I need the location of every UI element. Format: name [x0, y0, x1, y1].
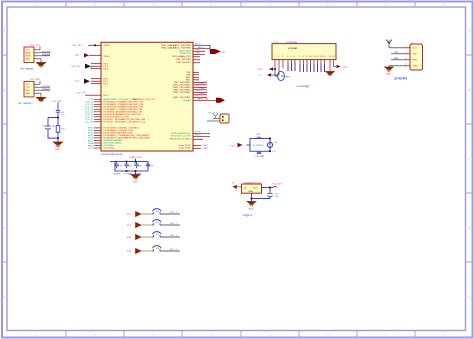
VCC arrow left of LCD — [258, 67, 276, 71]
GND arrow left of LCD — [259, 73, 280, 77]
svg-text:VCC_5V0: VCC_5V0 — [30, 79, 41, 81]
svg-text:CIK1_WdAVg_P80: CIK1_WdAVg_P80 — [172, 55, 191, 58]
svg-text:GND: GND — [133, 182, 138, 184]
wire reset bottom — [48, 133, 59, 143]
programming switch S1 right of MCU — [207, 112, 229, 123]
svg-text:ADC0: ADC0 — [195, 43, 202, 46]
node OSC_IN1 at XTAL2 pin — [72, 44, 96, 47]
off-sheet arrow right of MCU at UART pin — [216, 98, 225, 103]
MCU U1 right inside pin names — [161, 44, 191, 150]
svg-text:TXD: TXD — [413, 54, 418, 56]
svg-text:TIMC_C3OV/PA.1: TIMC_C3OV/PA.1 — [173, 91, 191, 94]
key row K1 — [127, 209, 180, 217]
svg-text:XTAL_OSC: XTAL_OSC — [130, 156, 142, 159]
svg-text:VCC: VCC — [25, 84, 30, 86]
capacitor C9 right leg — [146, 162, 154, 169]
svg-text:Rx3/Ad: Rx3/Ad — [183, 99, 191, 102]
svg-text:VCC: VCC — [343, 67, 348, 69]
resistor R1 in reset circuit — [53, 124, 66, 135]
MCU U1 left port P0 pins — [94, 99, 101, 148]
svg-text:TIMC_C3OV/PA.1: TIMC_C3OV/PA.1 — [173, 96, 191, 99]
off-sheet arrow right of MCU top — [210, 49, 225, 54]
svg-text:CAP1: CAP1 — [203, 144, 209, 147]
svg-text:GND: GND — [249, 209, 254, 211]
off-sheet arrow into P4.6-P4.4 — [71, 64, 91, 69]
svg-text:UART_TX0: UART_TX0 — [197, 98, 209, 101]
svg-text:VCC_3V3: VCC_3V3 — [272, 184, 283, 186]
net labels of P0 port pins — [85, 99, 94, 150]
ground under crystal circuit — [131, 171, 140, 184]
svg-text:30P: 30P — [118, 166, 122, 168]
LCD1602 module body — [272, 41, 336, 59]
svg-text:CIK1_WCLP86: CIK1_WCLP86 — [176, 59, 192, 61]
svg-text:P0.4/KxAIN7_TATN2/AIN7N/TIM0_C: P0.4/KxAIN7_TATN2/AIN7N/TIM0_C3B/C0B0N — [104, 137, 151, 140]
svg-text:RXD: RXD — [413, 60, 418, 62]
svg-text:RXD: RXD — [394, 58, 399, 60]
ground of reset circuit — [53, 142, 62, 151]
svg-text:RS485A: RS485A — [42, 50, 51, 53]
MCU U1 left inside pin names — [104, 44, 155, 150]
capacitor C4 in reset circuit — [56, 111, 66, 118]
svg-text:LCD1602: LCD1602 — [288, 48, 298, 50]
svg-text:232RXD: 232RXD — [42, 89, 51, 91]
svg-text:LCD_RS: LCD_RS — [85, 122, 94, 124]
svg-text:TXD0: TXD0 — [88, 148, 94, 150]
off-sheet arrow into P4.3-P4.1 — [75, 79, 90, 84]
right pin net labels — [195, 43, 209, 150]
svg-text:ADC1: ADC1 — [198, 46, 205, 49]
svg-text:SPI1/O/dC_C1_P07: SPI1/O/dC_C1_P07 — [171, 136, 191, 138]
svg-text:VCC_5V0: VCC_5V0 — [30, 45, 41, 47]
node RST label — [77, 91, 87, 94]
svg-text:CAP2: CAP2 — [203, 147, 209, 150]
MCU U1 STC89C52 body — [101, 42, 193, 156]
LCD1602 pin stubs and wires — [275, 60, 334, 75]
svg-text:MOSI: MOSI — [195, 132, 201, 134]
svg-text:VCC: VCC — [25, 50, 30, 52]
key row K2 — [127, 220, 180, 228]
svg-text:30P: 30P — [150, 166, 154, 168]
svg-text:GND: GND — [25, 93, 30, 95]
key row K3 — [127, 232, 180, 240]
svg-text:10K: 10K — [61, 129, 65, 131]
svg-text:KEY_2: KEY_2 — [170, 223, 178, 225]
svg-text:KEY_4: KEY_4 — [170, 249, 178, 251]
svg-text:C6 30P: C6 30P — [113, 173, 121, 175]
svg-text:RST: RST — [104, 95, 109, 97]
electrolytic capacitor C5 — [43, 124, 51, 133]
svg-text:KEY_1: KEY_1 — [170, 212, 178, 214]
svg-text:TXD: TXD — [196, 53, 201, 55]
svg-text:T2EX: T2EX — [199, 83, 205, 85]
svg-text:MISO: MISO — [195, 135, 201, 137]
svg-text:TXD: TXD — [25, 87, 30, 89]
crystal Y1 — [134, 162, 142, 176]
svg-text:KEY_3: KEY_3 — [170, 235, 178, 237]
32.768K crystal circuit — [231, 134, 279, 158]
svg-text:RXD: RXD — [196, 50, 201, 52]
svg-text:SPI1/mOd_C1_OK17: SPI1/mOd_C1_OK17 — [170, 138, 192, 140]
svg-text:OSC_IN2: OSC_IN2 — [71, 66, 81, 68]
svg-text:30P: 30P — [128, 166, 132, 168]
svg-text:TXD: TXD — [394, 52, 399, 54]
svg-text:GND: GND — [55, 149, 60, 151]
svg-text:VCC: VCC — [413, 48, 418, 50]
svg-text:P4.1: P4.1 — [104, 83, 109, 85]
svg-text:Rxd/TIM4g: Rxd/TIM4g — [104, 148, 115, 150]
svg-text:C12 20P: C12 20P — [256, 156, 265, 158]
capacitor C6 — [113, 162, 122, 176]
svg-text:485B: 485B — [25, 56, 31, 58]
svg-text:CIK1_WurP87: CIK1_WurP87 — [177, 61, 192, 64]
potentiometer loop ellipse on LCD pins — [275, 69, 291, 81]
regulator U2 AMS1117-3.3 — [232, 181, 283, 210]
svg-text:485A: 485A — [25, 52, 31, 55]
key row K4 — [127, 246, 180, 254]
svg-text:VCC: VCC — [258, 69, 263, 71]
svg-text:Vout: Vout — [253, 187, 258, 190]
serial output module J2 top right — [385, 40, 423, 76]
label XTAL_OSC under MCU — [130, 156, 142, 161]
MCU U1 right pins and wires — [193, 45, 216, 148]
ground under LCD pin15 — [326, 70, 335, 76]
LCD data wires colored — [288, 63, 325, 72]
power label VCC_3V3 of reset circuit — [52, 101, 63, 111]
connector JP1 (RS485) — [20, 45, 51, 71]
svg-text:P/TACI/TN: P/TACI/TN — [180, 52, 191, 55]
cyan pin labels under LCD data pins — [287, 62, 296, 64]
svg-text:GND: GND — [413, 66, 418, 68]
svg-text:232TXD: 232TXD — [42, 86, 50, 88]
svg-text:STC89C52RC/LE52R: STC89C52RC/LE52R — [101, 154, 123, 156]
main crystal Y1 circuit under MCU — [110, 162, 148, 172]
svg-text:32.768KHZ: 32.768KHZ — [253, 145, 265, 147]
MCU U1 left pins and wires — [85, 45, 101, 95]
off-sheet arrow into XTAL1 — [75, 53, 89, 57]
svg-text:RXD: RXD — [25, 90, 30, 92]
wire reset node — [48, 117, 59, 124]
svg-text:XTAL2: XTAL2 — [104, 44, 111, 47]
svg-text:Vcap_T8.1F: Vcap_T8.1F — [179, 145, 192, 147]
svg-text:P0.7/KPC_ MOhUAIN7_CTN_AIN7/C_: P0.7/KPC_ MOhUAIN7_CTN_AIN7/C_T04 — [104, 121, 146, 124]
svg-text:T4EX: T4EX — [199, 93, 205, 95]
svg-text:RS485B: RS485B — [42, 54, 51, 56]
junction dots on crystal loop — [126, 161, 137, 172]
svg-text:VCC_3V3: VCC_3V3 — [52, 101, 63, 103]
svg-text:P4.4: P4.4 — [104, 68, 109, 70]
svg-text:XTAL1: XTAL1 — [104, 55, 111, 58]
svg-text:GND: GND — [386, 74, 391, 76]
svg-text:SW_DL1: SW_DL1 — [208, 112, 218, 114]
connector JP2 (RS232) — [18, 79, 51, 105]
VCC arrow right of LCD — [334, 65, 349, 69]
svg-text:OSC_IN1: OSC_IN1 — [72, 45, 82, 47]
svg-text:30P: 30P — [138, 166, 142, 168]
svg-text:Vcap_T8.2F: Vcap_T8.2F — [179, 148, 192, 150]
svg-text:VO: VO — [259, 75, 262, 77]
svg-text:GND: GND — [25, 59, 30, 61]
svg-text:TIMC_CAN-AIA/CL_P44/TIM4: TIMC_CAN-AIA/CL_P44/TIM4 — [161, 47, 191, 50]
capacitor C7 — [124, 162, 132, 176]
svg-text:GND: GND — [248, 191, 253, 193]
svg-text:T3EX: T3EX — [199, 88, 205, 90]
